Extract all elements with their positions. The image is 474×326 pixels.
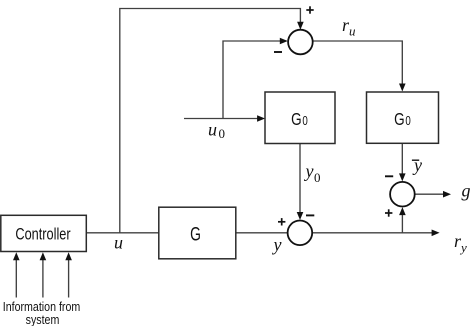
svg-text:ry: ry — [454, 231, 467, 255]
svg-text:G: G — [190, 223, 201, 245]
svg-text:g: g — [462, 181, 471, 201]
box G0 right — [367, 92, 439, 143]
wire Controller to G — [87, 232, 160, 234]
label Information from system — [3, 299, 81, 326]
svg-text:ru: ru — [342, 15, 356, 39]
svg-text:u0: u0 — [208, 120, 225, 142]
label ybar — [412, 155, 422, 175]
summing junction S3 — [390, 182, 415, 207]
svg-text:u: u — [114, 233, 123, 253]
svg-text:y: y — [272, 235, 282, 255]
svg-text:y0: y0 — [304, 161, 321, 185]
wire info arrow 3 — [65, 252, 72, 297]
svg-text:system: system — [26, 312, 60, 326]
wire info arrow 2 — [40, 252, 47, 297]
wire S3 to g — [415, 191, 451, 198]
sign minus at S1 — [274, 51, 282, 53]
box G — [159, 207, 236, 259]
wire u0 branch to S1 — [223, 38, 288, 119]
box G0 left — [265, 92, 335, 144]
wire feedback u to S1 — [120, 9, 304, 233]
svg-text:Controller: Controller — [15, 225, 70, 244]
sign minus at S3 — [385, 175, 393, 177]
wire u0 input — [184, 115, 265, 122]
wire info arrow 1 — [13, 252, 20, 297]
sign plus at S2 — [278, 218, 285, 225]
wire branch up to S3 — [399, 207, 406, 233]
wire ybar from right G0 to S3 — [399, 143, 406, 181]
sign plus at S3 — [385, 209, 392, 216]
summing junction S1 — [288, 30, 313, 55]
wire G to S2 — [236, 232, 287, 234]
svg-text:y: y — [412, 155, 422, 175]
wire S2 to ry — [313, 230, 440, 237]
sign plus at S1 — [306, 6, 313, 13]
sign minus at S2 — [306, 214, 314, 216]
box Controller — [1, 215, 87, 251]
wire y0 from left G0 to S2 — [297, 144, 304, 221]
wire S1 to right G0 — [313, 41, 405, 92]
summing junction S2 — [288, 221, 313, 246]
